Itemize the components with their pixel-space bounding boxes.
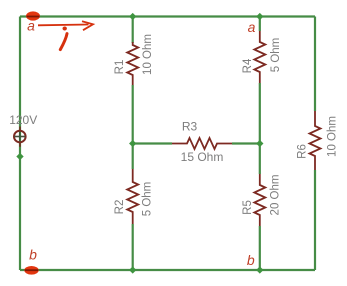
voltage source V1 120V	[9, 113, 37, 147]
current arrow i	[38, 21, 93, 30]
svg-text:R4: R4	[242, 58, 254, 73]
svg-text:R5: R5	[242, 200, 254, 215]
svg-text:R3: R3	[182, 120, 198, 134]
junction top-right column	[256, 13, 263, 20]
resistor R2	[114, 169, 154, 224]
svg-text:5 Ohm: 5 Ohm	[142, 182, 154, 217]
node dot a (top)	[26, 11, 40, 20]
resistor R6	[297, 111, 339, 170]
svg-text:5 Ohm: 5 Ohm	[270, 38, 282, 73]
wire middle R3 left lead	[133, 142, 172, 144]
wire bottom	[20, 269, 315, 271]
resistor R5	[242, 174, 282, 226]
svg-text:R2: R2	[114, 200, 126, 215]
svg-text:b: b	[247, 252, 255, 268]
svg-text:a: a	[27, 18, 35, 34]
resistor R3	[172, 120, 232, 165]
svg-text:20 Ohm: 20 Ohm	[270, 175, 282, 216]
junction bottom-left column	[129, 266, 136, 273]
wire column R6 upper	[314, 17, 316, 112]
wire column R4 lower	[259, 83, 261, 144]
junction below source	[16, 153, 23, 160]
svg-text:R1: R1	[114, 60, 126, 75]
wire column R1 upper	[132, 17, 134, 44]
junction top-left column	[129, 13, 136, 20]
wire column R5 lower	[259, 226, 261, 270]
wire column R2 upper	[132, 144, 134, 170]
current label i	[60, 27, 67, 50]
wire column R5 upper	[259, 144, 261, 175]
svg-text:15 Ohm: 15 Ohm	[181, 150, 224, 164]
svg-text:R6: R6	[297, 144, 309, 159]
svg-text:10 Ohm: 10 Ohm	[327, 116, 339, 157]
wire top	[20, 15, 315, 17]
wire middle R3 right lead	[232, 142, 260, 144]
wire column R6 lower	[314, 170, 316, 270]
junction middle-right	[256, 140, 263, 147]
svg-text:120V: 120V	[9, 113, 37, 127]
wire column R2 lower	[132, 224, 134, 270]
svg-text:b: b	[29, 247, 37, 263]
svg-text:10 Ohm: 10 Ohm	[142, 34, 154, 75]
svg-text:a: a	[248, 19, 256, 35]
junction bottom-right column	[256, 266, 263, 273]
node dot b (bottom)	[24, 266, 38, 275]
resistor R4	[242, 31, 282, 83]
wire left	[19, 17, 21, 271]
wire column R4 upper	[259, 17, 261, 32]
junction middle-left	[129, 140, 136, 147]
resistor R1	[114, 34, 154, 85]
wire column R1 lower	[132, 85, 134, 144]
